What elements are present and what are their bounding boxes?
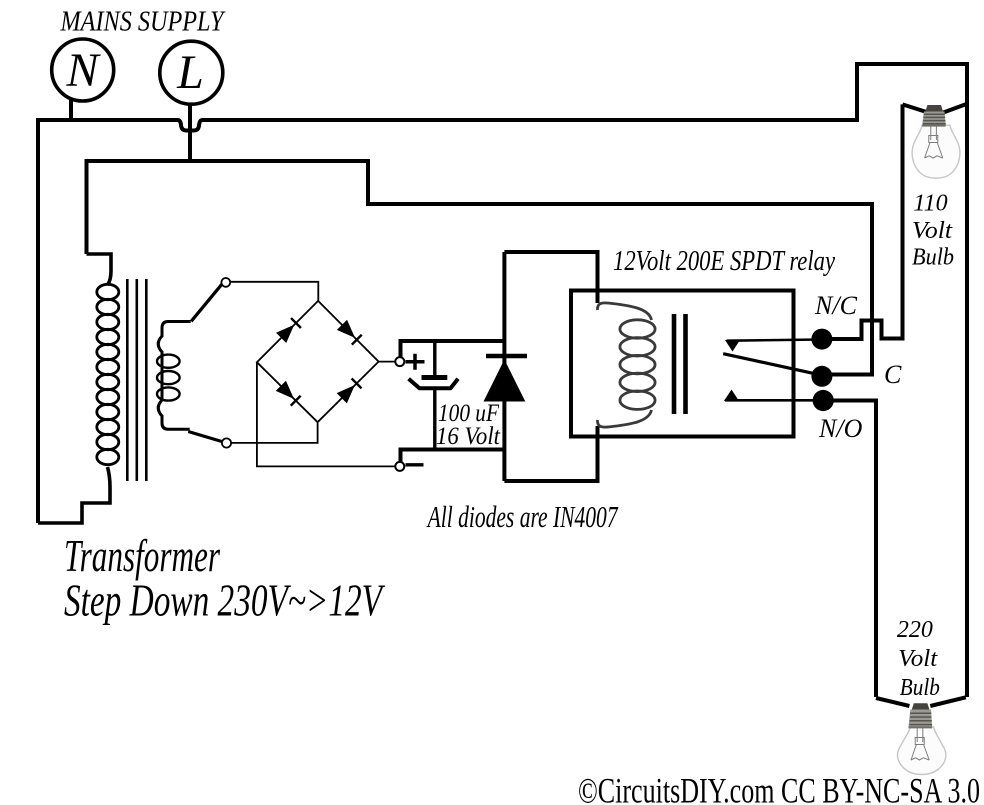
svg-text:N/C: N/C	[814, 291, 858, 320]
svg-text:Bulb: Bulb	[900, 675, 940, 701]
svg-text:©CircuitsDIY.com CC BY-NC-SA 3: ©CircuitsDIY.com CC BY-NC-SA 3.0	[578, 771, 980, 805]
svg-text:All diodes are IN4007: All diodes are IN4007	[426, 499, 618, 534]
svg-text:16 Volt: 16 Volt	[436, 423, 501, 450]
svg-text:Bulb: Bulb	[912, 245, 954, 271]
svg-text:Transformer: Transformer	[64, 530, 221, 581]
svg-text:N: N	[65, 44, 101, 97]
svg-text:MAINS SUPPLY: MAINS SUPPLY	[60, 6, 226, 38]
svg-text:Step Down 230V~>12V: Step Down 230V~>12V	[64, 575, 386, 626]
svg-text:Volt: Volt	[912, 218, 953, 244]
svg-text:L: L	[176, 46, 204, 99]
svg-text:220: 220	[897, 617, 933, 643]
svg-text:12Volt 200E SPDT relay: 12Volt 200E SPDT relay	[613, 246, 835, 277]
svg-text:N/O: N/O	[818, 414, 863, 443]
svg-text:C: C	[884, 360, 902, 389]
svg-text:Volt: Volt	[898, 646, 938, 672]
svg-text:110: 110	[913, 191, 947, 217]
